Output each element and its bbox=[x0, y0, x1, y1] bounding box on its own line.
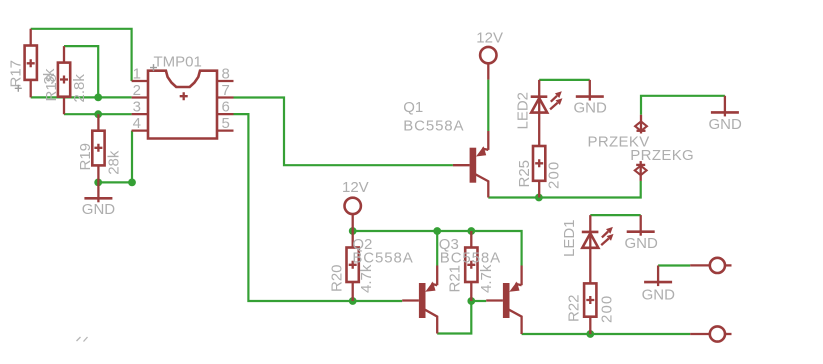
LED1 bbox=[561, 215, 614, 283]
svg-text:3: 3 bbox=[133, 99, 141, 116]
op-amp / IC U1 TMP01 bbox=[132, 54, 234, 139]
wire IC pin7 to Q1 base bbox=[234, 98, 453, 166]
resistor R20 bbox=[329, 231, 376, 301]
svg-text:R20: R20 bbox=[329, 264, 346, 292]
wire rail pin3: R18 bottom to IC pin3 bbox=[64, 113, 132, 115]
svg-text:R18: R18 bbox=[43, 74, 60, 102]
node pin4 wire corner junction bbox=[128, 179, 136, 187]
svg-text:R17: R17 bbox=[8, 60, 25, 88]
pin 6 bbox=[217, 113, 234, 115]
pin 4 bbox=[132, 129, 148, 131]
svg-text:R19: R19 bbox=[77, 143, 94, 171]
supply 12V top bbox=[476, 29, 503, 79]
wire LED2 top to GND bbox=[539, 79, 590, 81]
wire PRZEKV to right GND bbox=[641, 96, 725, 115]
svg-text:12V: 12V bbox=[476, 29, 503, 46]
ground GND for LED1 bbox=[625, 215, 659, 252]
transistor Q3 BC558A bbox=[439, 236, 522, 334]
ground GND right top bbox=[709, 96, 743, 133]
svg-text:TMP01: TMP01 bbox=[154, 54, 202, 71]
node Q2 emitter rail junction bbox=[433, 227, 441, 235]
pin 2 bbox=[132, 96, 148, 98]
wire IC pin4 loop down to R19 bottom node bbox=[98, 131, 132, 183]
svg-text:BC558A: BC558A bbox=[440, 250, 501, 267]
node R21 top rail junction bbox=[467, 227, 475, 235]
svg-text:12V: 12V bbox=[342, 179, 369, 196]
svg-text:R21: R21 bbox=[447, 265, 464, 293]
wire Q3 base node to Q3 base pin bbox=[471, 300, 486, 302]
svg-text:GND: GND bbox=[625, 235, 659, 252]
svg-text:1: 1 bbox=[133, 66, 141, 83]
wire Q2 collector loop to Q3 base node bbox=[437, 301, 471, 334]
resistor R18 bbox=[43, 46, 88, 114]
wire Q2 emitter to 12V rail bbox=[436, 231, 438, 266]
svg-text:4.7k: 4.7k bbox=[478, 264, 495, 293]
pin 1 bbox=[132, 80, 148, 82]
svg-text:200: 200 bbox=[599, 295, 616, 323]
svg-text:GND: GND bbox=[574, 100, 608, 117]
ground GND under R19 bbox=[82, 182, 116, 218]
svg-text:Q1: Q1 bbox=[403, 99, 423, 116]
svg-text:GND: GND bbox=[642, 286, 676, 303]
LED2 bbox=[514, 80, 562, 146]
connector pad upper bbox=[690, 258, 731, 273]
resistor R25 bbox=[516, 146, 563, 198]
svg-text:LED1: LED1 bbox=[561, 219, 578, 257]
pin 3 bbox=[132, 113, 148, 115]
ground GND middle right bbox=[642, 266, 676, 304]
svg-text:BC558A: BC558A bbox=[403, 118, 464, 135]
wire LED1 top to GND bbox=[590, 214, 640, 216]
svg-text:BC558A: BC558A bbox=[352, 250, 413, 267]
pin 5 bbox=[217, 129, 234, 131]
svg-text:28k: 28k bbox=[106, 150, 123, 175]
wire 12V bottom rail to Q3 emitter bbox=[353, 231, 522, 266]
svg-text:4.7k: 4.7k bbox=[358, 264, 375, 293]
node R19 bottom / GND junction bbox=[94, 179, 102, 187]
wire 12V top to Q1 emitter bbox=[487, 80, 489, 131]
supply 12V bottom bbox=[342, 179, 369, 231]
svg-text:6: 6 bbox=[222, 99, 230, 116]
svg-text:2: 2 bbox=[133, 82, 141, 99]
ground GND for LED2 bbox=[574, 80, 608, 117]
resistor R22 bbox=[566, 283, 616, 334]
node R22 bottom rail junction bbox=[586, 330, 594, 338]
pin 7 bbox=[217, 96, 234, 98]
svg-text:R22: R22 bbox=[566, 294, 583, 322]
pin 8 bbox=[217, 80, 234, 82]
node R20 bottom base-rail junction bbox=[349, 297, 357, 305]
svg-text:7: 7 bbox=[222, 82, 230, 99]
wire Q1 collector rail to PRZEKG bbox=[488, 181, 640, 198]
svg-text:PRZEKG: PRZEKG bbox=[630, 147, 694, 164]
resistor R21 bbox=[447, 231, 495, 301]
wire R18 top loop to pin2 rail bbox=[64, 46, 98, 97]
stray marks bottom left bbox=[77, 337, 88, 342]
svg-text:LED2: LED2 bbox=[514, 92, 531, 130]
wire net VCC-divider top: R17 top to IC pin1 bbox=[31, 29, 132, 81]
pin PRZEKV bbox=[588, 115, 650, 151]
node 12V bottom junction bbox=[349, 227, 357, 235]
svg-text:200: 200 bbox=[546, 161, 563, 189]
node pin3/R19 junction bbox=[94, 110, 102, 118]
svg-text:R25: R25 bbox=[516, 160, 533, 188]
svg-text:4: 4 bbox=[133, 115, 141, 132]
node pin2/R18 junction bbox=[94, 94, 102, 102]
node R21 bottom / Q3 base junction bbox=[467, 297, 475, 305]
svg-text:GND: GND bbox=[709, 116, 743, 133]
resistor R17 bbox=[8, 29, 59, 98]
wire rail pin2: R17 bottom to IC pin2 bbox=[31, 96, 132, 98]
svg-text:5: 5 bbox=[222, 115, 230, 132]
svg-text:2.8k: 2.8k bbox=[71, 74, 88, 103]
svg-text:8: 8 bbox=[222, 66, 230, 83]
wire IC pin6 to Q2 base rail bbox=[234, 114, 403, 301]
transistor Q2 BC558A bbox=[352, 236, 437, 334]
svg-text:GND: GND bbox=[82, 201, 116, 218]
resistor R19 bbox=[77, 114, 123, 182]
wire bottom rail Q3 collector to connector bbox=[522, 333, 691, 335]
node R25 bottom rail junction bbox=[535, 194, 543, 202]
connector pad lower bbox=[690, 326, 731, 341]
pin PRZEKG bbox=[630, 147, 694, 181]
wire upper connector to GND bbox=[658, 264, 690, 266]
transistor Q1 BC558A bbox=[403, 99, 488, 198]
